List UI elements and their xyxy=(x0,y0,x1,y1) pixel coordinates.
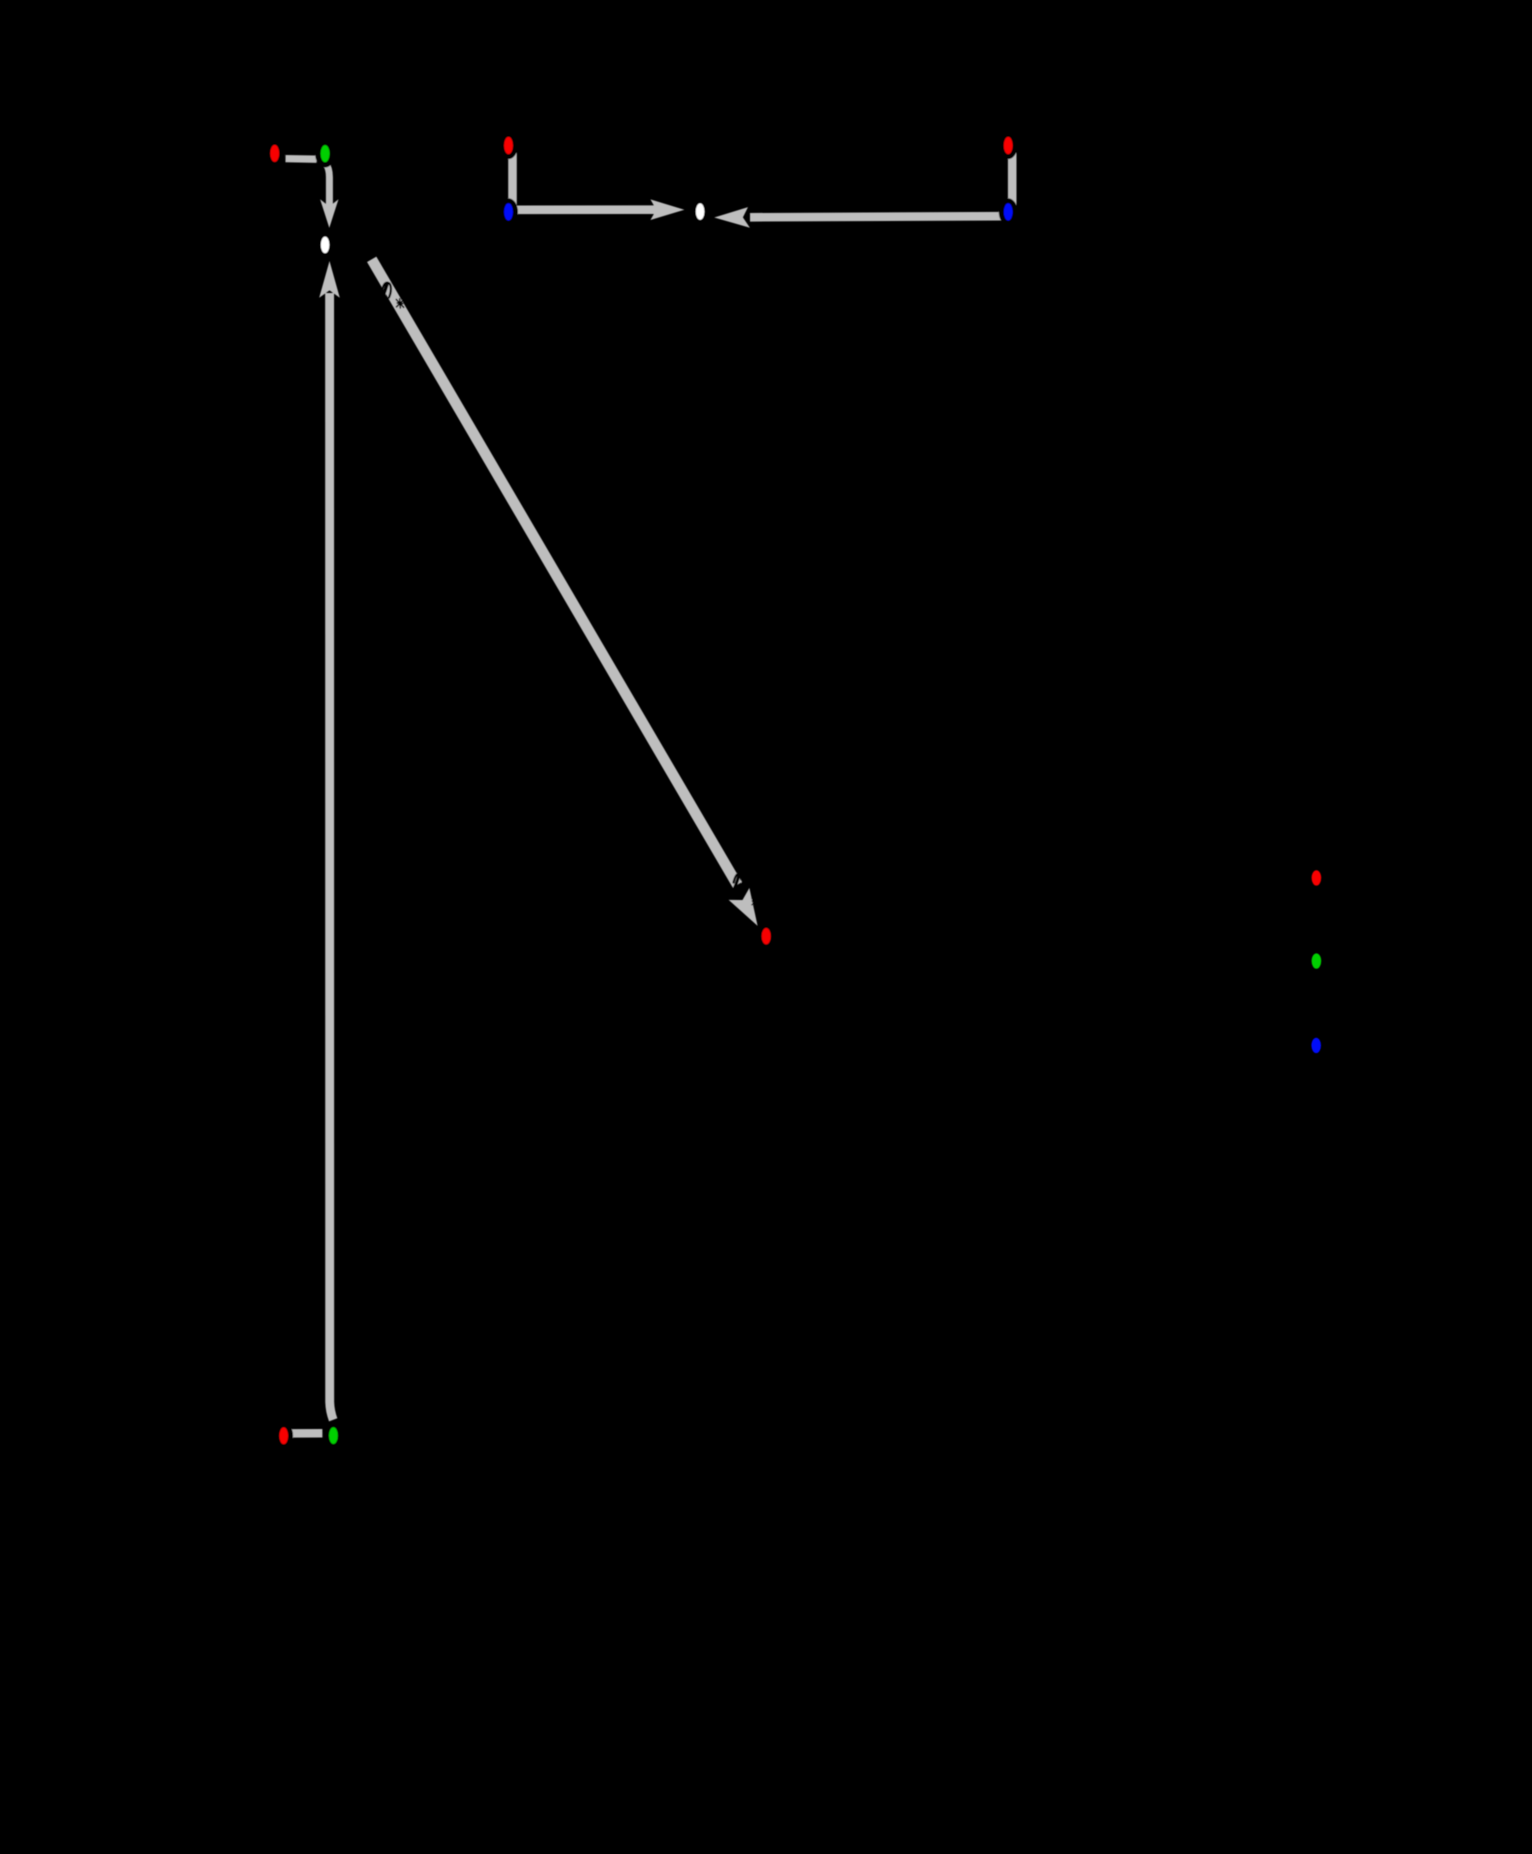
edge B1->W1 arrowhead xyxy=(320,199,338,228)
node R3 red xyxy=(757,923,776,949)
edge R4-G4 xyxy=(292,1429,322,1438)
edge G4->W1 shaft xyxy=(330,293,334,1420)
edge C2->W2 shaft xyxy=(514,205,658,214)
edge A2-C2 xyxy=(508,153,517,205)
edge A3-C3 xyxy=(1008,153,1017,205)
edge B1->W1 shaft xyxy=(326,164,330,208)
edge G4->W1 arrowhead xyxy=(319,261,340,298)
edge W1->R3 arrowhead xyxy=(729,888,758,926)
edge A1-B1 xyxy=(286,155,317,163)
node W2 white xyxy=(691,198,710,225)
node C3 blue xyxy=(999,198,1018,225)
edge label asterisk second occurrence on arrowhead xyxy=(752,897,759,905)
node A1 red xyxy=(265,139,285,167)
legend node red xyxy=(1312,870,1322,885)
node W1 white xyxy=(316,232,335,259)
edge label lambda-star (group, drawn at two positions on W1->R3) xyxy=(379,283,404,308)
edge W1->R3 shaft xyxy=(372,259,738,885)
edge label lambda leg second occurrence near arrowhead xyxy=(731,874,740,896)
node A3 red xyxy=(999,132,1018,159)
node G4 green xyxy=(324,1422,343,1449)
node R4 red xyxy=(274,1422,293,1449)
node C2 blue xyxy=(499,198,518,225)
node B1 green xyxy=(315,140,335,168)
edge C2->W2 arrowhead xyxy=(650,199,684,220)
edge label lambda hook second occurrence near arrowhead xyxy=(734,874,743,889)
node A2 red xyxy=(499,132,518,159)
edge C3->W2 arrowhead xyxy=(714,207,750,228)
legend node blue xyxy=(1311,1038,1321,1053)
legend node green xyxy=(1312,953,1322,968)
edge C3->W2 shaft xyxy=(750,216,1004,217)
